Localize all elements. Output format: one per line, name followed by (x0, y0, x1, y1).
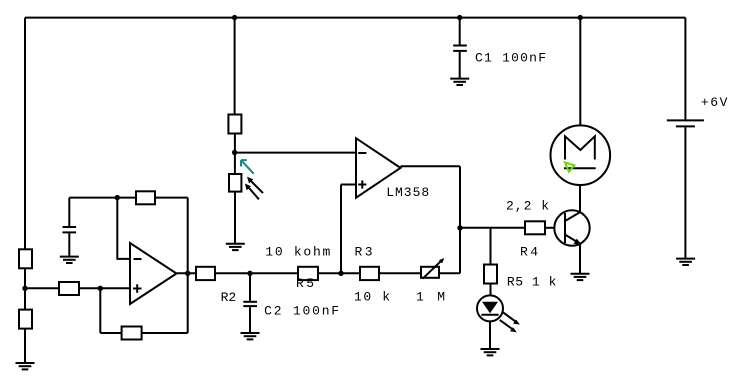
annotation green arrow on motor (565, 163, 574, 172)
svg-text:1 M: 1 M (416, 289, 445, 304)
resistor above LDR (228, 115, 241, 134)
wire: U2 - input from LDR node (235, 152, 356, 154)
wire: pot up to U2 output node (459, 166, 461, 273)
junction node top rail / motor branch (578, 15, 583, 20)
ground feedback capacitor (60, 257, 79, 263)
LED light arrow 1 (503, 312, 520, 324)
svg-text:R5 1 k: R5 1 k (507, 275, 557, 290)
wire: bottom feedback left segment (100, 332, 121, 334)
junction node top feedback / capacitor (115, 195, 120, 200)
capacitor C2 (243, 273, 257, 332)
battery BT1 +6V (667, 18, 704, 258)
ground LED (481, 349, 500, 355)
wire: feedback vertical at op-amp output (187, 198, 189, 333)
op-amp U1 (130, 243, 177, 304)
svg-text:LM358: LM358 (386, 185, 429, 200)
wire: divider tap to input resistor (25, 287, 59, 289)
junction node U1 output (185, 271, 190, 276)
wire: node down to R5 1k (490, 228, 492, 265)
ground battery (676, 259, 695, 265)
wire: + input node down to bottom feedback (99, 288, 101, 333)
resistor input series (59, 282, 79, 295)
wire: U1 output (177, 272, 197, 274)
wire: R5 to LED (490, 284, 492, 296)
ground left divider (16, 363, 35, 369)
wire: U2 output horizontal (401, 165, 461, 167)
wire: R4 to transistor base (545, 227, 554, 229)
wire: bottom feedback right segment (142, 332, 188, 334)
wire: bottom signal line R2 to pot (215, 272, 460, 274)
wire: left rail down to divider (24, 18, 26, 250)
LDR light arrow 2 (245, 184, 259, 200)
resistor R3 (360, 267, 379, 280)
ground emitter (571, 274, 590, 280)
junction node U2 + tap (338, 271, 343, 276)
resistor R5 10 kohm (298, 267, 318, 280)
svg-text:+6V: +6V (701, 95, 728, 110)
ground LDR (226, 244, 245, 250)
resistor upper left divider (19, 249, 32, 268)
LED D1 (477, 295, 503, 321)
wire: LED to ground (489, 321, 491, 348)
potentiometer 1 M (421, 258, 444, 279)
resistor R4 (525, 221, 545, 234)
junction node R2 / C2 (247, 271, 252, 276)
svg-text:R3: R3 (355, 245, 373, 260)
ground C1 (450, 79, 469, 85)
wire: rail down to C1 (459, 18, 461, 45)
resistor lower left divider (19, 310, 32, 329)
wire: between left divider resistors (24, 268, 26, 309)
wire: collector to motor (579, 185, 581, 212)
svg-text:2,2 k: 2,2 k (506, 199, 549, 214)
resistor R2 (196, 267, 215, 280)
resistor bottom feedback (122, 327, 142, 340)
svg-text:C2 100nF: C2 100nF (264, 303, 339, 318)
wire: left divider to ground (24, 329, 26, 363)
resistor top feedback (136, 191, 155, 204)
junction node U2 output / R4 (457, 225, 462, 230)
svg-text:10 k: 10 k (354, 289, 390, 304)
wire: + input down to bottom line (340, 185, 342, 274)
wire: output node to R4 (460, 227, 525, 229)
wire: rail down to motor (579, 18, 581, 126)
resistor R5 1 k (484, 265, 497, 284)
LED light arrow 2 (500, 320, 517, 332)
wire: rail down to LDR divider (234, 18, 236, 115)
junction node left divider tap (22, 286, 27, 291)
LDR light arrow 1 (247, 177, 263, 193)
wire: top feedback to - input (117, 198, 130, 259)
svg-text:R2: R2 (221, 290, 237, 305)
op-amp U2 LM358 (356, 138, 401, 198)
junction node U1 + input (98, 286, 103, 291)
junction node top rail / C1 branch (457, 15, 462, 20)
ground C2 (241, 333, 260, 339)
photoresistor LDR (229, 174, 241, 192)
svg-text:10 kohm: 10 kohm (265, 245, 330, 260)
transistor Q1 (554, 210, 589, 245)
capacitor feedback C3 (63, 198, 77, 256)
junction node top rail / LDR branch (232, 15, 237, 20)
wire: +6V top supply rail (25, 17, 685, 19)
wire: top feedback horizontal (69, 197, 187, 199)
wire: input resistor to op-amp + input (79, 287, 130, 289)
motor M1 (551, 125, 611, 185)
junction node LDR divider tap (232, 150, 237, 155)
wire: LDR to ground (234, 192, 236, 244)
annotation teal arrow (241, 160, 254, 174)
wire: divider mid segment (234, 134, 236, 175)
svg-text:R4: R4 (520, 245, 538, 260)
wire: U2 + input (341, 184, 356, 186)
capacitor C1 (453, 46, 467, 79)
wire: emitter to ground (579, 244, 581, 274)
svg-text:C1 100nF: C1 100nF (475, 51, 546, 66)
